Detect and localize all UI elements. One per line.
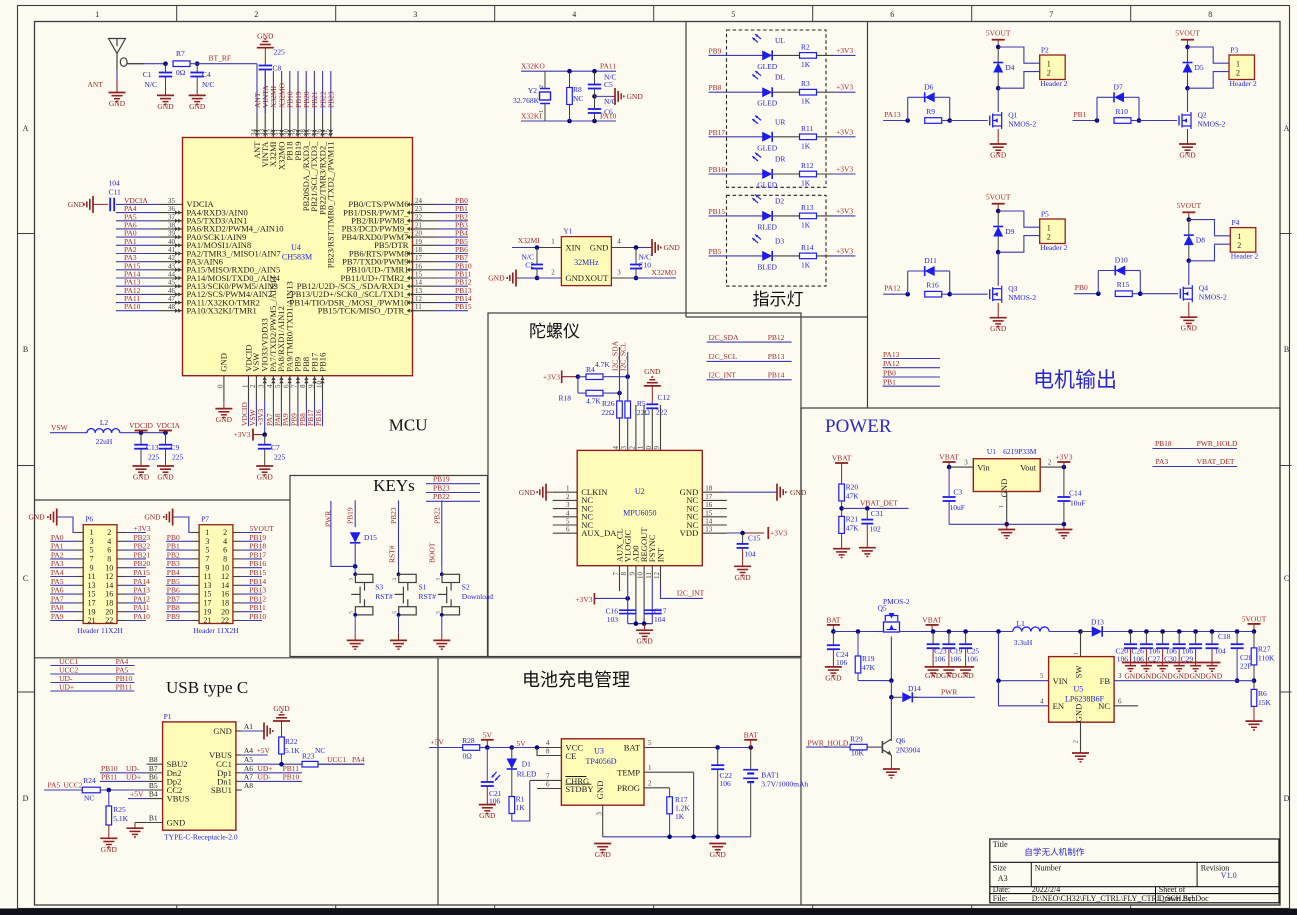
svg-text:GND: GND (167, 818, 186, 828)
svg-text:GND: GND (790, 488, 807, 497)
section box POWER (801, 408, 1280, 905)
svg-text:104: 104 (109, 179, 121, 188)
wire gate down to Q6 (890, 697, 892, 741)
svg-text:N/C: N/C (202, 80, 215, 89)
wire A6 UD+ PB11 (242, 764, 302, 773)
svg-text:C31: C31 (871, 509, 884, 518)
U3 pin 5 BAT (624, 739, 718, 753)
svg-text:110K: 110K (1258, 654, 1275, 663)
svg-text:BAT1: BAT1 (761, 771, 779, 780)
U3 GND rotated (595, 781, 605, 800)
ground under C15 (734, 566, 751, 582)
net tie UCC2 PA5 (50, 666, 134, 675)
resistor R17 1.2K 1K (667, 788, 691, 837)
svg-text:PB11: PB11 (101, 772, 118, 781)
MCU top pin 25 PB23 (324, 71, 336, 268)
svg-text:4.7K: 4.7K (586, 397, 601, 406)
net tie UD+ PB11 (50, 683, 134, 692)
svg-text:GND: GND (479, 811, 496, 820)
wire X32KI rail (521, 120, 616, 122)
diode D7 (1097, 83, 1139, 121)
svg-text:5: 5 (90, 546, 94, 555)
net label ANT at antenna (88, 70, 118, 92)
junction +3V3 pullup (576, 374, 586, 379)
svg-text:44: 44 (168, 271, 176, 279)
U5 pin numbers (1040, 672, 1122, 706)
svg-text:PA6: PA6 (51, 586, 64, 595)
svg-text:R20: R20 (846, 483, 859, 492)
ground under cap 1130 (1122, 663, 1141, 681)
section box gyroscope (488, 313, 801, 657)
power +3V3 U1 flag (1055, 453, 1072, 468)
svg-text:5V: 5V (483, 731, 493, 740)
power flag VDCID (129, 421, 153, 433)
svg-text:BOOT: BOOT (428, 542, 437, 563)
junction bottom motor 3 (996, 250, 1001, 255)
wire to header pin1 motor 3 (998, 211, 1039, 227)
svg-text:GND: GND (1140, 672, 1157, 681)
header P6 row pins 13/14 (50, 577, 150, 590)
ground under Q2 (1179, 129, 1196, 160)
svg-text:1K: 1K (801, 179, 811, 188)
svg-text:RST#: RST# (388, 545, 397, 563)
svg-text:GND: GND (925, 671, 942, 680)
svg-text:X32MO: X32MO (652, 268, 678, 277)
section box LED bottom edge (686, 316, 868, 318)
junction C23 rail (931, 629, 936, 634)
svg-text:22: 22 (221, 616, 229, 625)
svg-text:B1: B1 (149, 814, 158, 823)
svg-text:9: 9 (205, 563, 209, 572)
svg-text:7: 7 (612, 572, 620, 576)
P1 left pin B8 SBU2 (147, 755, 188, 769)
svg-text:+3V3: +3V3 (543, 373, 560, 382)
svg-text:STDBY: STDBY (565, 784, 593, 794)
svg-text:Q1: Q1 (1008, 111, 1017, 120)
svg-text:XIN: XIN (565, 243, 581, 253)
svg-text:PWR: PWR (941, 688, 957, 697)
LED D2 RLED (752, 195, 799, 232)
svg-text:GLED: GLED (757, 181, 778, 190)
svg-text:15: 15 (705, 509, 713, 517)
capacitor C12 (646, 386, 670, 451)
svg-text:7: 7 (205, 555, 209, 564)
svg-text:39: 39 (168, 230, 176, 238)
inductor L2 22uH (87, 418, 120, 446)
gyro right pin 17 NC (686, 493, 726, 505)
svg-text:L2: L2 (100, 418, 109, 427)
svg-text:5: 5 (435, 611, 441, 614)
switch S1 RST# (392, 566, 436, 616)
net label PA12 motor 3 (883, 284, 908, 295)
resistor R18 4.7K (558, 377, 619, 406)
svg-text:Sheet of: Sheet of (1159, 885, 1186, 894)
net label I2C_SCL vertical (619, 342, 628, 401)
svg-text:Q6: Q6 (896, 736, 905, 745)
svg-text:S3: S3 (375, 583, 383, 592)
junction VDD/C15 (740, 531, 745, 536)
net label VBAT_DET (860, 499, 898, 508)
switch S2 Download (435, 566, 493, 616)
svg-text:2: 2 (223, 528, 227, 537)
diode D14 (891, 684, 975, 702)
net stub PB23 keys list (426, 483, 480, 492)
resistor R27 110K (1251, 632, 1275, 681)
svg-text:D3: D3 (775, 236, 784, 245)
svg-text:+3V3: +3V3 (836, 127, 853, 136)
power port GND above C8 (257, 32, 274, 48)
svg-text:A: A (23, 124, 29, 133)
title POWER (825, 416, 892, 437)
junction gate left motor 1 (905, 118, 910, 123)
svg-text:GND: GND (1189, 672, 1206, 681)
MCU right pin 14 PB12 (297, 278, 472, 291)
svg-text:+3V3: +3V3 (134, 524, 151, 533)
svg-text:D13: D13 (1091, 618, 1104, 627)
ground under cap 1196 (1187, 663, 1206, 681)
svg-text:UCC1: UCC1 (327, 755, 346, 764)
svg-text:R15: R15 (1117, 280, 1130, 289)
svg-text:1: 1 (551, 238, 555, 246)
svg-text:8: 8 (620, 572, 628, 576)
svg-text:VBAT: VBAT (939, 453, 959, 462)
power VBAT U1 flag (939, 453, 959, 468)
svg-text:BLED: BLED (757, 262, 777, 271)
junction C10/XOUT (634, 276, 639, 281)
junction gate right motor 2 (1137, 118, 1177, 123)
svg-text:UD+: UD+ (126, 772, 141, 781)
junction bottom motor 2 (1185, 86, 1190, 91)
svg-text:5: 5 (648, 739, 652, 747)
net label PB1 motor 2 (1073, 110, 1098, 121)
net label PB19 keys column (346, 500, 356, 527)
MCU bottom pin 3 VIO33/VDD33 (256, 318, 269, 426)
svg-text:指示灯: 指示灯 (753, 290, 804, 309)
svg-text:1K: 1K (801, 97, 811, 106)
header P6 row pins 21/22 (50, 612, 150, 625)
svg-text:R8: R8 (573, 85, 582, 94)
svg-text:C14: C14 (1069, 489, 1082, 498)
wire A7 UD- PB10 (242, 772, 302, 781)
svg-text:19: 19 (88, 607, 96, 616)
svg-text:UD+: UD+ (59, 683, 74, 692)
svg-text:19: 19 (415, 238, 423, 246)
U5 SW pin up (1073, 632, 1081, 657)
svg-text:GND: GND (189, 102, 206, 111)
svg-text:1: 1 (1047, 59, 1051, 68)
svg-text:1: 1 (205, 528, 209, 537)
MCU right pin 17 PB7 (342, 253, 468, 266)
capacitor C21 (481, 748, 502, 806)
svg-text:21: 21 (88, 616, 96, 625)
P1 left pin B6 Dp2 (147, 772, 182, 786)
LED D1 RLED (492, 748, 537, 797)
svg-text:B4: B4 (149, 790, 158, 799)
svg-text:225: 225 (274, 453, 286, 462)
svg-text:4: 4 (223, 537, 227, 546)
gyro bottom pin names/numbers (612, 527, 665, 579)
resistor R24 NC (82, 776, 146, 803)
ground left of gyro CLKIN (519, 484, 553, 501)
U1 GND pin down (998, 492, 1007, 525)
junction top motor 4 (1187, 217, 1192, 222)
svg-text:8: 8 (546, 748, 550, 756)
svg-text:POWER: POWER (825, 416, 892, 437)
LED UR GLED (752, 116, 799, 153)
svg-text:PB15/TCK/MISO_/DTR_: PB15/TCK/MISO_/DTR_ (318, 306, 409, 316)
ground under C22 (709, 837, 726, 859)
svg-text:Y2: Y2 (528, 86, 537, 95)
svg-text:PB20: PB20 (134, 559, 151, 568)
svg-text:47: 47 (168, 295, 176, 303)
diode D11 (908, 256, 950, 294)
svg-text:电机输出: 电机输出 (1033, 368, 1117, 392)
net label PA10 (600, 112, 617, 121)
svg-text:Header 11X2H: Header 11X2H (77, 626, 123, 635)
wire PB10 UD- to Dn2 (100, 764, 147, 773)
header P7 row pins 15/16 (166, 586, 266, 599)
svg-text:2: 2 (107, 528, 111, 537)
MCU right pin 21 PB3 (342, 220, 469, 233)
MCU bottom pin 0 GND (217, 353, 229, 401)
MCU bottom pin 6 PA9/TMR0/TXD1/AIN13 (281, 281, 294, 426)
MCU left pin 38 PA6 (116, 220, 284, 233)
svg-text:16: 16 (105, 590, 113, 599)
svg-text:41: 41 (168, 246, 176, 254)
svg-text:R10: R10 (1116, 107, 1129, 116)
svg-text:106: 106 (836, 658, 848, 667)
gyro left pin 4 NC (553, 509, 594, 521)
gyro left pin 5 NC (553, 518, 594, 530)
svg-text:C15: C15 (748, 534, 761, 543)
header P6 row pins 1/2 (75, 524, 151, 537)
svg-text:Header 11X2H: Header 11X2H (193, 626, 239, 635)
net label BOOT S2 wire (428, 542, 437, 563)
wire to header pin2 motor 1 (998, 72, 1039, 89)
svg-text:TP4056D: TP4056D (585, 757, 616, 766)
svg-text:PA4: PA4 (51, 568, 64, 577)
svg-text:5VOUT: 5VOUT (249, 524, 274, 533)
svg-text:PB8: PB8 (709, 83, 722, 92)
svg-text:Q4: Q4 (1199, 284, 1208, 293)
svg-text:D1: D1 (522, 760, 531, 769)
svg-text:47K: 47K (846, 524, 860, 533)
battery BAT1 3.7V/1000mAh (743, 748, 808, 837)
svg-text:3.3uH: 3.3uH (1014, 638, 1033, 647)
power +3V3 LED row PB9 (836, 46, 853, 55)
svg-text:10: 10 (221, 563, 229, 572)
svg-text:2: 2 (254, 10, 258, 19)
svg-text:5: 5 (566, 518, 570, 526)
svg-text:PB15: PB15 (709, 207, 726, 216)
junction 5V/C21 (485, 745, 512, 750)
junction 5V/D1 (510, 745, 538, 750)
resistor R16 (925, 281, 950, 297)
svg-text:R14: R14 (801, 243, 814, 252)
svg-text:PA11: PA11 (600, 62, 616, 71)
resistor R3 1K (800, 79, 856, 106)
svg-text:22uH: 22uH (96, 437, 113, 446)
resistor R22 5.1K (279, 721, 301, 764)
diode D5 (1183, 47, 1204, 88)
junction 5VOUT (1252, 629, 1257, 634)
net label PA11 (600, 62, 616, 71)
IC U1 6219P33M (973, 447, 1040, 497)
svg-text:I2C_SCL: I2C_SCL (619, 342, 628, 371)
svg-text:+3V3: +3V3 (575, 595, 592, 604)
svg-text:BAT: BAT (744, 731, 759, 740)
svg-text:VSW: VSW (51, 423, 69, 432)
svg-text:NC: NC (315, 746, 325, 755)
resistor R15 (1115, 280, 1140, 296)
header P7 row pins 11/12 (166, 568, 266, 581)
svg-text:GND: GND (157, 473, 174, 482)
svg-text:R28: R28 (462, 736, 475, 745)
gyro pin8 wire (627, 566, 629, 624)
net stub PB19 keys list (426, 475, 480, 484)
net tie I2C_SDA PB12 (707, 333, 792, 342)
svg-text:RLED: RLED (757, 222, 777, 231)
svg-text:PA10: PA10 (134, 612, 151, 621)
svg-text:RST#: RST# (375, 592, 393, 601)
ground under R21 (833, 549, 850, 558)
net label PWR_HOLD (806, 738, 850, 747)
wire to header pin1 motor 1 (998, 47, 1039, 63)
svg-text:+3V3: +3V3 (836, 83, 853, 92)
power +3V3 under MCU (233, 426, 267, 440)
svg-text:+3V3: +3V3 (256, 409, 265, 426)
svg-text:18: 18 (415, 246, 423, 254)
svg-text:5VOUT: 5VOUT (986, 193, 1011, 202)
wire to header pin2 motor 2 (1188, 72, 1230, 89)
svg-text:PB9: PB9 (709, 46, 722, 55)
section box motor left edge (867, 22, 869, 409)
header P6 row pins 11/12 (50, 568, 150, 581)
charger bottom rail (603, 836, 751, 838)
junction R17/rail (667, 835, 672, 840)
svg-text:PA10: PA10 (600, 112, 617, 121)
svg-text:3: 3 (1118, 672, 1122, 680)
svg-text:3: 3 (413, 10, 417, 19)
capacitor C14 10uF (1057, 467, 1085, 524)
svg-text:DL: DL (775, 73, 785, 82)
ground under C23 (925, 667, 942, 680)
svg-text:PA12: PA12 (884, 284, 901, 293)
ground under cap 1179 (1171, 663, 1190, 681)
MCU top pin 30 PB18 (283, 71, 295, 161)
capacitor 106 C30 (1164, 632, 1186, 666)
svg-text:R27: R27 (1258, 645, 1271, 654)
MCU top pin 28 PB20 (299, 71, 311, 211)
ground under C4 (189, 95, 206, 111)
ground under C25 (957, 667, 974, 680)
svg-text:GND: GND (1156, 672, 1173, 681)
wire R1 to CHRG (512, 780, 530, 821)
svg-text:Y1: Y1 (563, 227, 572, 236)
power 5VOUT motor 2 (1175, 29, 1200, 48)
svg-text:I2C_INT: I2C_INT (709, 371, 737, 380)
net tie PB18 PWR_HOLD (1153, 439, 1239, 449)
svg-text:GND: GND (644, 367, 661, 376)
header P5 Header 2 (1040, 210, 1068, 252)
svg-text:2: 2 (539, 85, 545, 88)
svg-text:14: 14 (105, 581, 113, 590)
svg-text:C11: C11 (109, 188, 121, 197)
svg-text:+3V3: +3V3 (233, 430, 250, 439)
power 5VOUT flag (1242, 615, 1267, 632)
MCU right pin 19 PB5 (374, 237, 468, 250)
diode D10 (1098, 256, 1140, 294)
svg-text:1: 1 (1237, 232, 1241, 241)
svg-text:C10: C10 (639, 261, 652, 270)
svg-text:10uF: 10uF (950, 503, 965, 512)
capacitor C20 106 (1115, 632, 1137, 666)
header P7 row pins 1/2 (191, 524, 274, 537)
svg-text:GND: GND (1179, 151, 1196, 160)
junction cap C18 rail (1210, 629, 1215, 634)
svg-text:1: 1 (539, 110, 545, 113)
svg-text:PB18: PB18 (249, 542, 266, 551)
MCU bottom pin 4 PA7/TXD2/PWM5_/AIN11 (265, 275, 278, 426)
svg-text:6: 6 (546, 781, 550, 789)
junction PWR/S3 (353, 564, 358, 569)
svg-text:13: 13 (88, 581, 96, 590)
svg-text:PB11: PB11 (116, 683, 133, 692)
svg-text:6: 6 (107, 546, 111, 555)
wire L2 to caps (120, 432, 166, 434)
svg-text:32.768K: 32.768K (513, 96, 540, 105)
svg-text:1: 1 (1236, 59, 1240, 68)
svg-text:PA11: PA11 (134, 603, 150, 612)
gyro right pin 18 GND (680, 485, 727, 497)
power +3V3 LED row PB16 (836, 165, 853, 174)
junction gate left motor 2 (1095, 118, 1100, 123)
header P6 row pins 17/18 (50, 594, 150, 607)
svg-text:17: 17 (88, 599, 96, 608)
P1 left pin B1 GND (147, 814, 186, 828)
svg-text:PB22: PB22 (134, 542, 151, 551)
resistor R9 (925, 107, 950, 123)
junction +3V3/VLOGIC (625, 596, 630, 601)
IC U3 TP4056D body (561, 739, 644, 805)
diode D13 (1081, 618, 1131, 637)
junction C19 rail (947, 629, 952, 634)
U3 pin 7 CHRG (530, 772, 589, 786)
svg-text:15K: 15K (1258, 698, 1272, 707)
junction gate right motor 3 (947, 292, 987, 297)
svg-text:INT: INT (655, 547, 665, 562)
svg-text:PA13: PA13 (883, 350, 900, 359)
capacitor C26 106 (1131, 632, 1153, 666)
svg-text:2: 2 (1048, 459, 1052, 467)
svg-text:3: 3 (349, 578, 355, 581)
oscillator Y1 body (561, 227, 611, 286)
wire XOUT to X32MO (611, 269, 676, 279)
svg-text:PB13: PB13 (768, 352, 785, 361)
net label PWR (913, 688, 958, 698)
U1 bottom rail (949, 522, 1066, 527)
svg-text:GND: GND (157, 102, 174, 111)
wire +5V to VBUS left (128, 790, 147, 799)
IC U4 CH583M body (183, 138, 413, 376)
svg-text:R19: R19 (862, 654, 875, 663)
svg-text:R6: R6 (1258, 689, 1267, 698)
svg-text:Size: Size (993, 864, 1007, 873)
ground under C7 (256, 466, 273, 482)
junction cap C30 rail (1177, 629, 1182, 634)
svg-text:6: 6 (1118, 698, 1122, 706)
net label PWR keys wire (324, 501, 356, 566)
